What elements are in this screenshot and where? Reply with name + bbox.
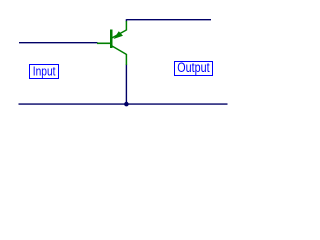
transistor Q1 emitter diagonal: [112, 30, 127, 38]
svg-text:Output: Output: [177, 60, 209, 75]
junction dot: [124, 102, 129, 107]
label box Output: [175, 62, 213, 76]
transistor Q1 collector pin stub: [125, 54, 127, 65]
wire: input net horizontal: [19, 42, 98, 44]
svg-text:Input: Input: [33, 63, 56, 78]
transistor Q1 base bar: [110, 30, 113, 49]
wire: collector down to bottom rail: [125, 65, 127, 105]
transistor Q1 emitter pin stub: [125, 21, 127, 30]
wire: bottom ground rail: [19, 103, 228, 105]
transistor Q1 emitter arrow (PNP): [114, 31, 124, 39]
transistor Q1 collector diagonal: [112, 46, 127, 55]
wire: corner vertical to emitter: [125, 19, 127, 21]
transistor Q1 base pin: [97, 42, 111, 44]
label box Input: [30, 65, 59, 79]
wire: top output net horizontal: [126, 19, 211, 21]
